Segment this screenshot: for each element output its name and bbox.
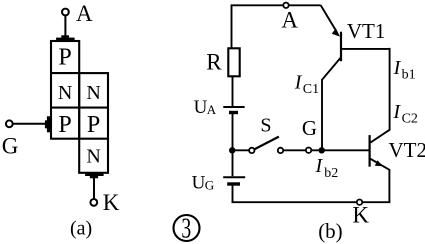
battery UA positive plate (long) — [223, 106, 244, 108]
switch S left contact circle — [249, 148, 254, 153]
node G terminal circle — [306, 148, 311, 153]
svg-text:P: P — [58, 44, 71, 70]
wire gate terminal to electrode — [13, 123, 45, 125]
wire bottom rail — [232, 201, 391, 203]
svg-text:(b): (b) — [318, 219, 343, 243]
label UA — [194, 97, 217, 118]
svg-text:3: 3 — [181, 213, 191, 244]
svg-text:G: G — [302, 116, 317, 140]
VT1 collector wire diagonal — [322, 58, 341, 80]
wire VT2 emitter to bottom rail — [388, 169, 390, 202]
cathode electrode contact — [85, 173, 104, 178]
label G node — [302, 116, 317, 140]
svg-text:N: N — [86, 82, 100, 104]
circled number 3 — [174, 213, 200, 244]
junction dot left branch at switch tap — [229, 147, 235, 153]
svg-text:I: I — [393, 57, 402, 79]
node A terminal circle — [283, 3, 288, 8]
wire resistor to battery UA — [232, 76, 234, 106]
label K node — [352, 203, 369, 228]
svg-text:G: G — [205, 177, 214, 192]
switch S blade — [254, 137, 279, 150]
svg-text:U: U — [192, 172, 206, 193]
resistor R body — [228, 48, 239, 76]
label Ib1 — [393, 57, 416, 82]
label (b) — [318, 219, 343, 243]
svg-text:VT1: VT1 — [347, 19, 386, 43]
label N layer row2 right — [86, 82, 100, 104]
svg-text:G: G — [2, 134, 19, 159]
battery UA negative plate (short thick) — [229, 111, 238, 114]
VT2 base bar — [369, 135, 371, 167]
svg-text:R: R — [206, 50, 222, 75]
svg-text:b1: b1 — [402, 67, 416, 82]
label UG — [192, 172, 215, 193]
label N layer row2 left — [58, 82, 72, 104]
svg-text:I: I — [294, 71, 303, 93]
label A node — [281, 8, 298, 33]
svg-text:A: A — [207, 102, 217, 117]
svg-text:K: K — [103, 190, 120, 215]
wire top rail — [232, 5, 321, 48]
svg-text:P: P — [87, 112, 100, 138]
svg-text:C2: C2 — [402, 111, 418, 126]
VT2 collector wire diagonal — [370, 130, 389, 143]
thyristor left column (P N P layers) outline — [51, 41, 79, 139]
gate electrode contact — [45, 116, 51, 132]
VT1 base wire to right — [342, 48, 390, 50]
svg-text:A: A — [281, 8, 298, 33]
battery UG positive plate (long) — [223, 176, 245, 178]
label A (anode) — [76, 1, 93, 26]
svg-text:U: U — [194, 97, 208, 118]
label G (gate) — [2, 134, 19, 159]
svg-text:I: I — [392, 101, 401, 123]
terminal A (anode) circle — [62, 9, 69, 16]
label IC1 — [294, 71, 319, 96]
svg-text:A: A — [76, 1, 93, 26]
label P layer row1 — [58, 44, 71, 70]
node K terminal circle — [357, 200, 362, 205]
svg-text:P: P — [58, 112, 71, 138]
wire battery UA to battery UG — [232, 114, 234, 176]
label Ib2 — [315, 155, 339, 181]
thyristor right column (N P N layers) outline — [79, 73, 108, 173]
label K (cathode) — [103, 190, 120, 215]
label R — [206, 50, 222, 75]
wire IC1 vertical — [321, 79, 323, 150]
wire junction to switch left contact — [232, 149, 249, 151]
svg-text:N: N — [58, 82, 72, 104]
svg-text:N: N — [86, 145, 100, 167]
label IC2 — [392, 101, 418, 126]
svg-text:K: K — [352, 203, 369, 228]
label VT2 — [389, 138, 425, 162]
terminal K (cathode) circle — [90, 199, 97, 206]
layer divider right column y=138.7 — [79, 138, 108, 140]
wire cathode electrode to terminal — [93, 178, 95, 198]
label (a) — [70, 218, 92, 240]
wire switch to node G — [283, 149, 306, 151]
svg-text:(a): (a) — [70, 218, 92, 240]
wire node G to VT2 base — [311, 149, 368, 151]
wire battery UG to bottom rail — [232, 186, 234, 203]
wire anode terminal to electrode — [64, 16, 66, 36]
svg-text:I: I — [315, 155, 324, 177]
switch S right contact circle — [278, 148, 283, 153]
anode electrode contact — [56, 35, 75, 40]
svg-text:VT2: VT2 — [389, 138, 425, 162]
layer divider left column y=73.1 — [51, 72, 79, 74]
label VT1 — [347, 19, 386, 43]
svg-text:S: S — [260, 115, 271, 137]
label N layer row4 — [86, 145, 100, 167]
battery UG negative plate (short thick) — [227, 182, 240, 185]
terminal G (gate) circle — [6, 120, 13, 127]
svg-text:b2: b2 — [324, 166, 338, 181]
VT1 emitter wire with arrow (PNP) — [321, 5, 340, 36]
svg-text:C1: C1 — [303, 82, 319, 97]
VT2 emitter wire with arrow (NPN) — [370, 159, 389, 170]
wire Ib1 vertical — [389, 48, 391, 131]
label S — [260, 115, 271, 137]
label P layer row3 right — [87, 112, 100, 138]
label P layer row3 left — [58, 112, 71, 138]
layer divider both columns y=107.6 — [51, 107, 108, 109]
junction dot gate node — [319, 147, 325, 153]
VT1 base bar — [340, 32, 342, 62]
